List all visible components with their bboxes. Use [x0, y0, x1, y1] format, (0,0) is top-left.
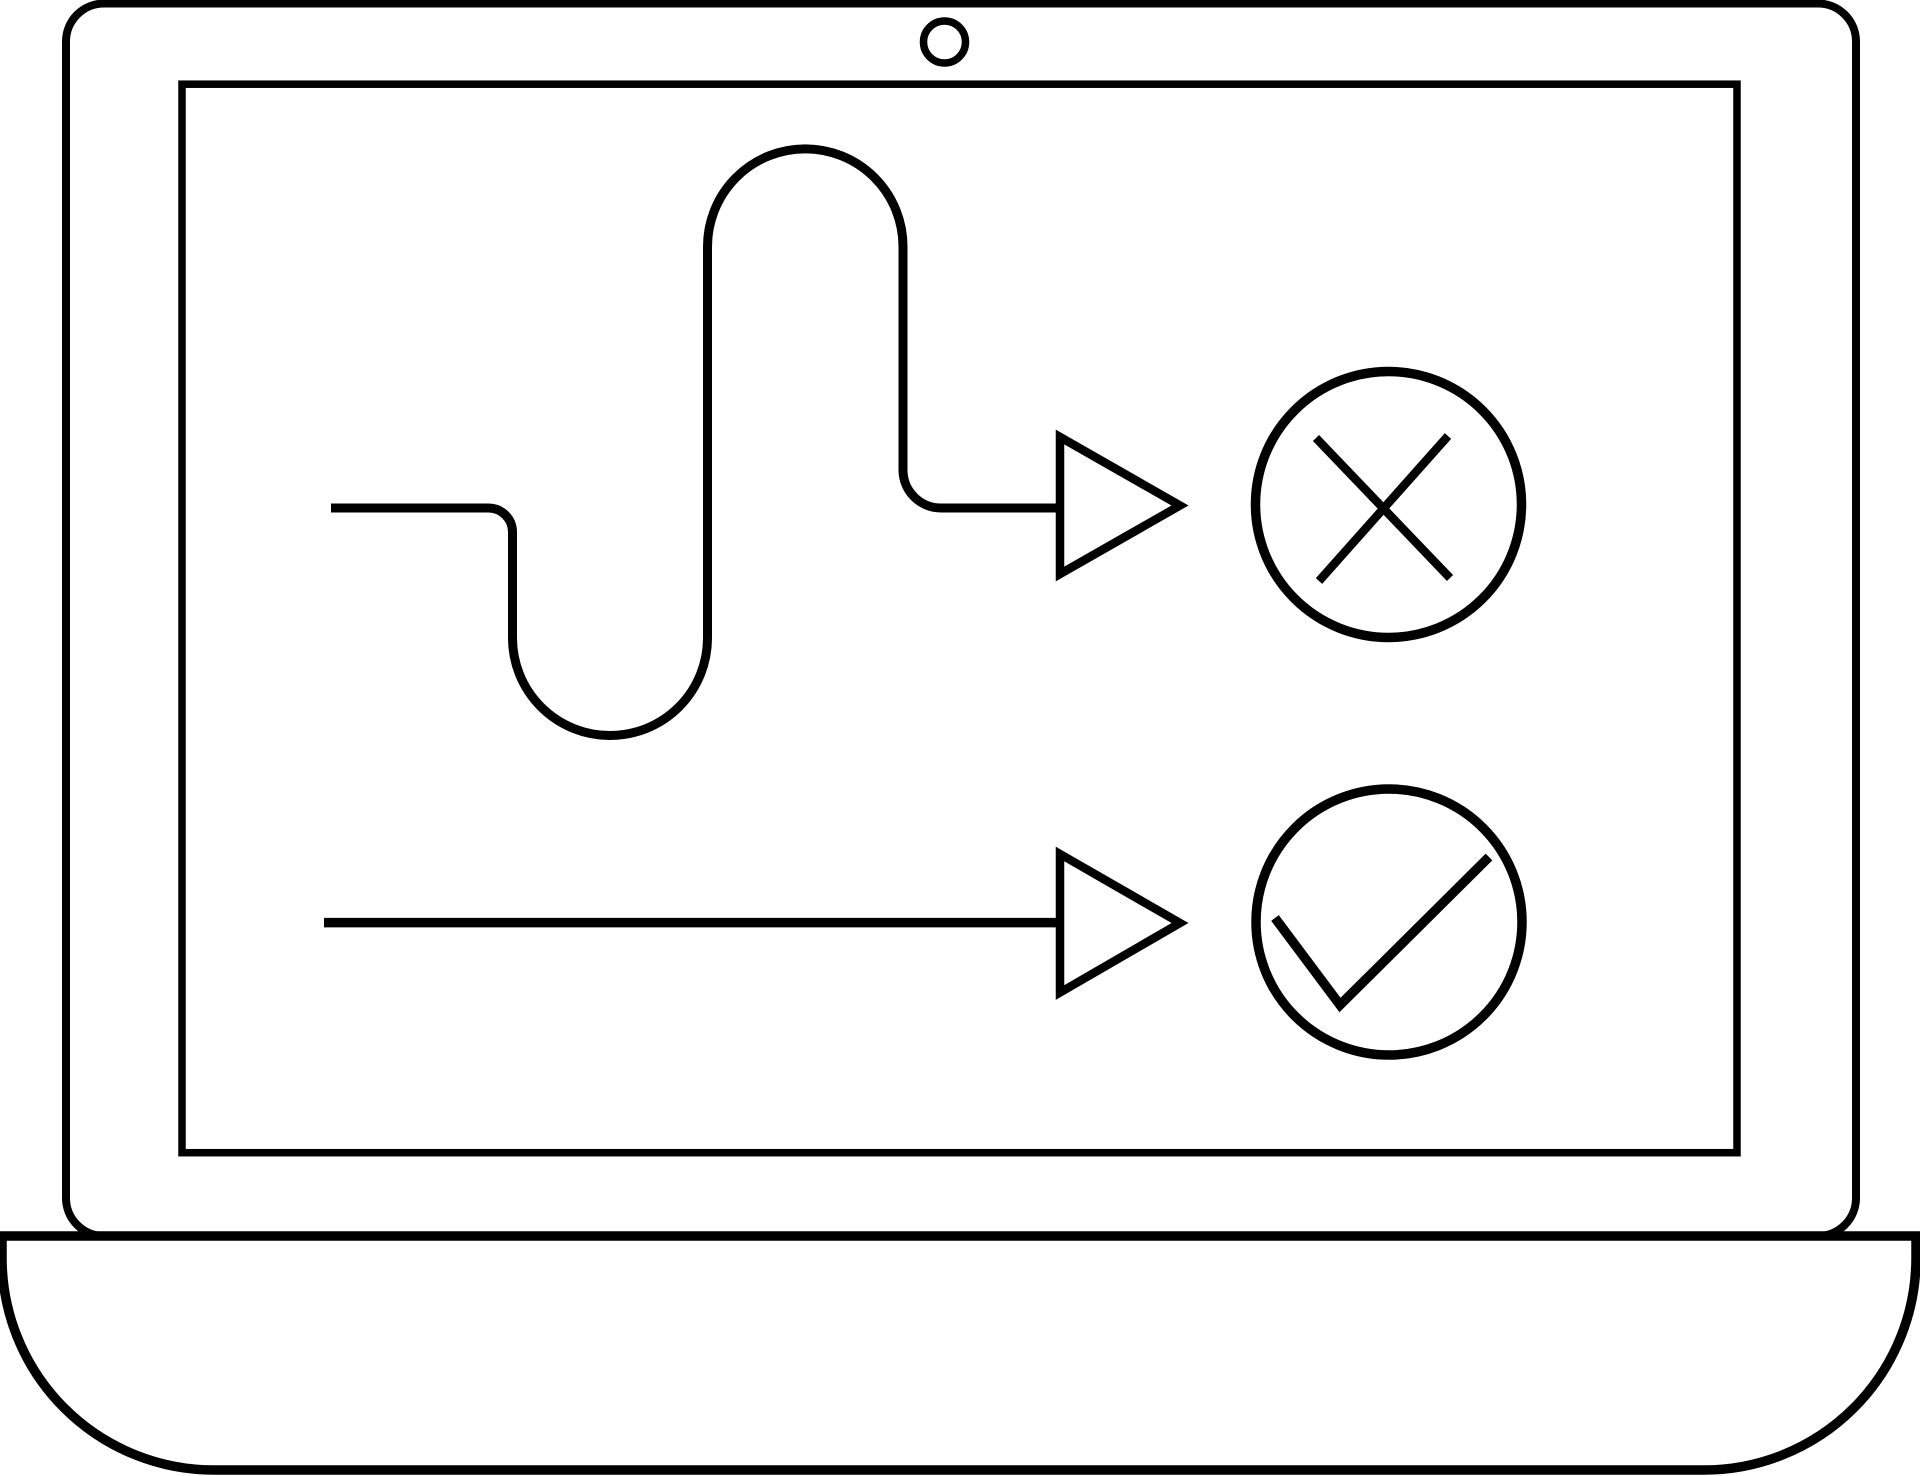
squiggly signal line: [331, 149, 1056, 736]
screen bezel inner rectangle: [182, 84, 1737, 1153]
error circle: [1256, 372, 1522, 638]
X mark stroke 2: [1319, 436, 1448, 581]
arrowhead 2: [1060, 854, 1180, 993]
success circle: [1256, 789, 1522, 1055]
laptop lid outer frame: [66, 4, 1856, 1237]
straight signal line: [324, 918, 1056, 928]
arrowhead 1: [1060, 437, 1180, 574]
check mark: [1275, 857, 1489, 1005]
camera dot: [924, 21, 966, 63]
laptop base: [2, 1236, 1916, 1470]
X mark stroke 1: [1316, 438, 1450, 578]
